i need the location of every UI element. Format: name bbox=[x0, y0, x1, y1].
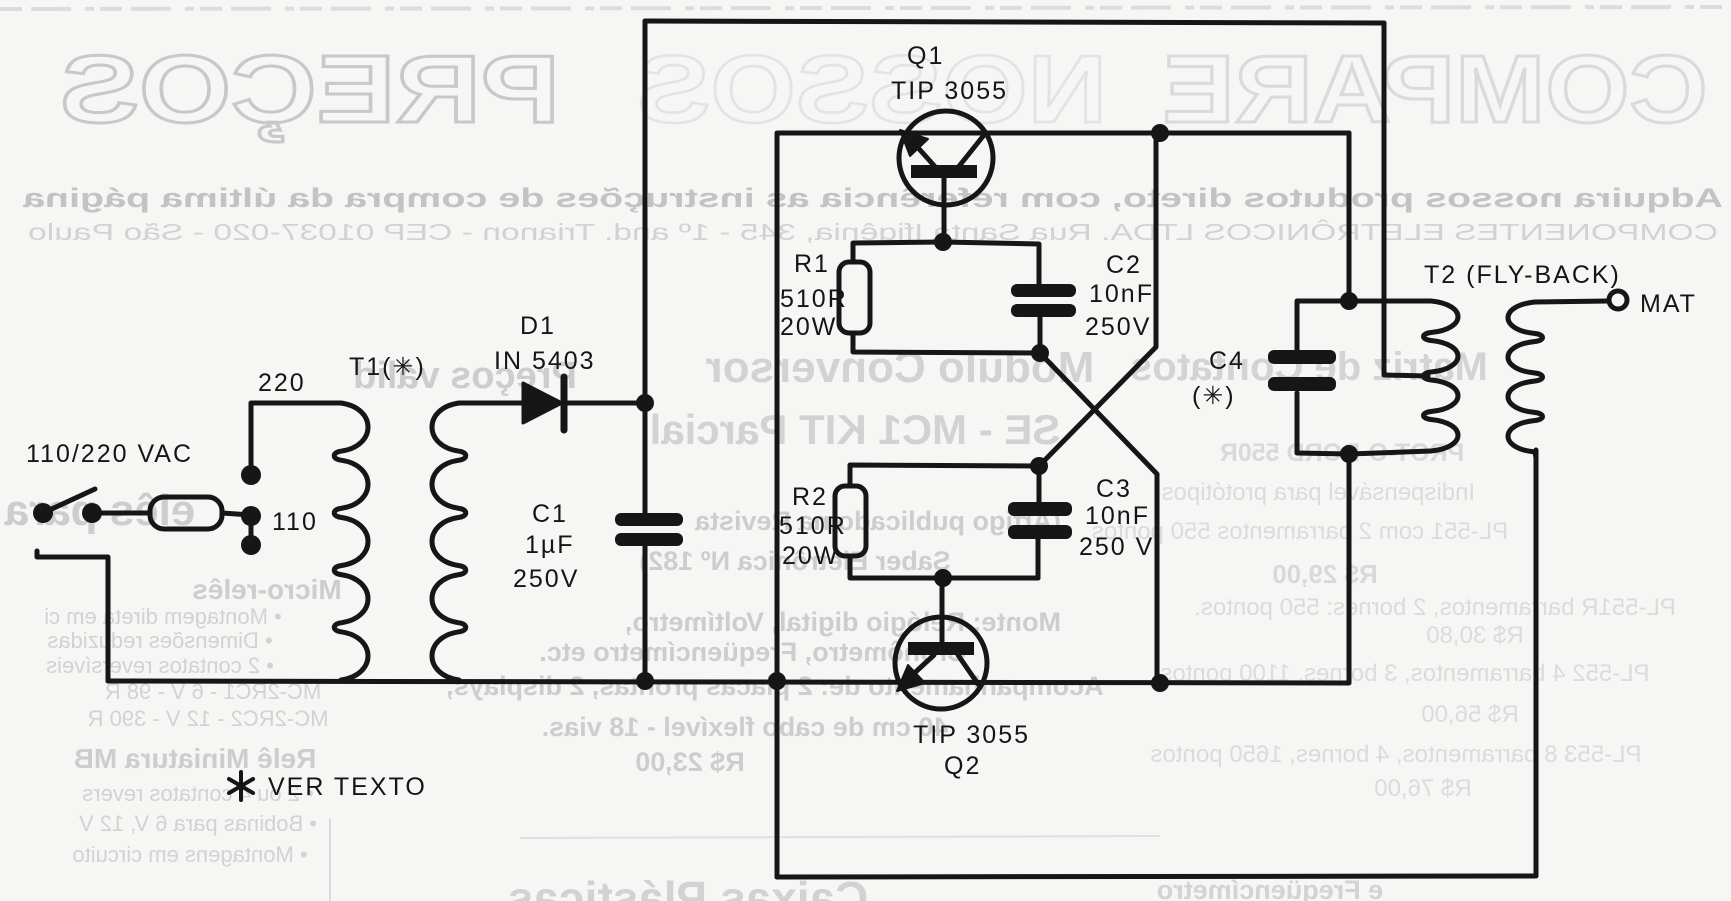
capacitor C2 bbox=[1011, 284, 1076, 297]
node C3 top junction bbox=[1030, 457, 1048, 475]
wire T2 primary top bbox=[1349, 299, 1431, 304]
svg-text:T2 (FLY-BACK): T2 (FLY-BACK) bbox=[1424, 261, 1621, 289]
wire cross diagonal C2-to-rail bbox=[1040, 353, 1157, 683]
node junction dot C1 bottom rail bbox=[636, 672, 654, 690]
svg-text:C2: C2 bbox=[1106, 251, 1142, 279]
node T2 top junction bbox=[1340, 292, 1358, 310]
transformer T2 secondary winding bbox=[1508, 302, 1543, 458]
svg-text:PREÇOS: PREÇOS bbox=[60, 36, 560, 143]
svg-text:PL-551R barramentos, 2 bornes:: PL-551R barramentos, 2 bornes: 550 ponto… bbox=[1194, 594, 1676, 621]
transformer T1 primary winding bbox=[334, 403, 368, 680]
resistor R1 bbox=[839, 262, 870, 333]
resistor R2 bbox=[835, 486, 866, 556]
wire top rail outer loop bbox=[645, 21, 1384, 23]
svg-text:Micro-relês: Micro-relês bbox=[192, 574, 341, 605]
fuse F1 bbox=[150, 497, 222, 529]
svg-text:Q2: Q2 bbox=[944, 752, 981, 780]
svg-text:T1(✳): T1(✳) bbox=[349, 353, 426, 381]
wire left outer vertical (D1 node to C1) bbox=[643, 21, 648, 681]
capacitor C4 branch bbox=[1297, 301, 1349, 454]
svg-text:MC-2RC2 - 12 V - 390 R: MC-2RC2 - 12 V - 390 R bbox=[88, 706, 329, 731]
wire neutral L path bbox=[37, 551, 108, 681]
svg-text:• Montagens em circuito: • Montagens em circuito bbox=[72, 842, 307, 867]
wire D1 cathode to node bbox=[564, 401, 645, 406]
wire bottom return to T2 secondary bbox=[777, 450, 1536, 877]
svg-text:D1: D1 bbox=[520, 312, 556, 340]
svg-text:IN 5403: IN 5403 bbox=[494, 347, 596, 375]
wire T2 primary bottom bbox=[1349, 451, 1431, 454]
node junction dot top rail x1160 bbox=[1151, 124, 1169, 142]
transistor Q1 bbox=[899, 111, 993, 205]
svg-text:1µF: 1µF bbox=[525, 531, 575, 559]
wire C3 bottom stub bbox=[1036, 539, 1041, 578]
capacitor C1 bbox=[615, 513, 683, 526]
svg-text:Monte: Relógio digital, Voltím: Monte: Relógio digital, Voltímetro, bbox=[625, 607, 1061, 637]
svg-text:250V: 250V bbox=[513, 565, 579, 593]
capacitor C3 bbox=[1008, 502, 1072, 516]
node tap 220 dot bbox=[241, 465, 261, 485]
svg-text:• Montagem direta em ci: • Montagem direta em ci bbox=[44, 604, 282, 629]
node tap mid dot bbox=[241, 506, 261, 526]
svg-text:C4: C4 bbox=[1209, 347, 1245, 375]
svg-text:PL-553 8 barramentos, 4 bornes: PL-553 8 barramentos, 4 bornes, 1650 pon… bbox=[1151, 741, 1642, 768]
svg-text:VER TEXTO: VER TEXTO bbox=[268, 773, 427, 801]
svg-text:20W: 20W bbox=[782, 542, 839, 570]
wire T1 secondary top to D1 bbox=[459, 401, 523, 406]
wire inner box right vertical upper bbox=[1347, 133, 1352, 301]
svg-text:R$ 56,00: R$ 56,00 bbox=[1421, 701, 1518, 728]
wire inner box top edge bbox=[779, 131, 1349, 136]
node T2 bottom junction bbox=[1340, 445, 1358, 463]
svg-text:220: 220 bbox=[258, 369, 306, 397]
node C2 bottom junction bbox=[1031, 344, 1049, 362]
node junction dot D1 output bbox=[636, 394, 654, 412]
svg-text:40 cm de cabo flexível - 18 vi: 40 cm de cabo flexível - 18 vias. bbox=[542, 712, 949, 742]
switch S1 bbox=[33, 503, 53, 523]
node junction dot inner left rail bbox=[768, 672, 786, 690]
svg-text:10nF: 10nF bbox=[1085, 502, 1150, 530]
svg-text:• 2 contatos reversíveis: • 2 contatos reversíveis bbox=[46, 653, 274, 678]
wire right outer vertical to T2 tap bbox=[1384, 23, 1428, 376]
terminal MAT circle bbox=[1609, 291, 1627, 309]
transistor Q2 bbox=[940, 578, 945, 642]
svg-text:(Artigo publicado na Revista: (Artigo publicado na Revista bbox=[694, 506, 1061, 536]
svg-text:Relê Miniatura MB: Relê Miniatura MB bbox=[74, 743, 317, 774]
svg-text:COMPARE: COMPARE bbox=[1163, 36, 1708, 143]
label VER TEXTO note bbox=[229, 772, 253, 800]
svg-text:• Bobinas para 6 V, 12 V: • Bobinas para 6 V, 12 V bbox=[79, 811, 317, 836]
svg-text:10nF: 10nF bbox=[1089, 280, 1154, 308]
svg-text:Indispensável para protótipos:: Indispensável para protótipos: bbox=[1155, 479, 1475, 506]
wire inner box left vertical bbox=[775, 133, 780, 877]
svg-text:R$ 76,00: R$ 76,00 bbox=[1374, 775, 1471, 802]
svg-text:R1: R1 bbox=[794, 250, 830, 278]
wire switch to fuse bbox=[92, 511, 150, 516]
svg-text:250V: 250V bbox=[1085, 313, 1151, 341]
svg-text:• Dimensões reduzidas: • Dimensões reduzidas bbox=[47, 628, 272, 653]
svg-text:MAT: MAT bbox=[1640, 290, 1697, 318]
transformer T1 secondary winding bbox=[432, 403, 466, 680]
svg-text:NOSSOS: NOSSOS bbox=[637, 36, 1107, 143]
svg-text:C3: C3 bbox=[1096, 475, 1132, 503]
wire C2 bottom stub bbox=[1038, 317, 1043, 353]
transformer T2 primary winding bbox=[1424, 301, 1459, 451]
node junction dot rail x1160 bbox=[1151, 674, 1169, 692]
wire R1 bottom bbox=[853, 333, 1040, 353]
svg-text:Q1: Q1 bbox=[907, 42, 944, 70]
svg-text:Adquira nossos produtos direto: Adquira nossos produtos direto, com refe… bbox=[22, 183, 1723, 213]
svg-text:510R: 510R bbox=[780, 285, 848, 313]
wire cross diagonal C3-to-top bbox=[1039, 133, 1156, 466]
svg-text:(✳): (✳) bbox=[1192, 382, 1236, 410]
svg-text:110/220 VAC: 110/220 VAC bbox=[26, 440, 193, 468]
svg-text:510R: 510R bbox=[779, 512, 847, 540]
wire Q1 base rail bbox=[853, 242, 1039, 284]
wire R2 top rail bbox=[850, 465, 1039, 502]
svg-text:TIP 3055: TIP 3055 bbox=[891, 77, 1008, 105]
wire tap stub bbox=[249, 516, 254, 545]
svg-text:R$ 23,00: R$ 23,00 bbox=[635, 747, 745, 777]
node tap 110 dot bbox=[241, 535, 261, 555]
svg-text:R$ 30,80: R$ 30,80 bbox=[1426, 622, 1523, 649]
wire 220 tap vertical bbox=[251, 403, 341, 475]
svg-text:R2: R2 bbox=[792, 483, 828, 511]
diode D1 bbox=[523, 383, 562, 423]
wire R2 bottom rail bbox=[850, 556, 1038, 578]
svg-text:TIP 3055: TIP 3055 bbox=[913, 721, 1030, 749]
svg-text:20W: 20W bbox=[780, 313, 837, 341]
svg-text:110: 110 bbox=[272, 508, 318, 536]
wire fuse to taps bbox=[222, 513, 251, 515]
svg-text:R$ 29,00: R$ 29,00 bbox=[1272, 559, 1378, 589]
wire bottom rail bbox=[108, 454, 1349, 683]
node Q1 base junction bbox=[934, 233, 952, 251]
wire MAT output bbox=[1535, 301, 1609, 302]
node Q2 base junction bbox=[934, 569, 952, 587]
svg-text:SE - MC1 KIT Parcial: SE - MC1 KIT Parcial bbox=[650, 406, 1061, 453]
svg-text:C1: C1 bbox=[532, 500, 568, 528]
svg-text:250 V: 250 V bbox=[1079, 533, 1154, 561]
